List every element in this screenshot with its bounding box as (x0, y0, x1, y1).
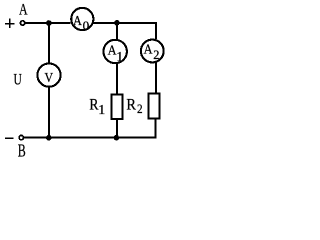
terminal A (20, 21, 24, 25)
svg-text:B: B (18, 141, 26, 160)
svg-text:V: V (44, 71, 53, 86)
wire: junction down to voltmeter V (48, 23, 50, 63)
wire: resistor R1 down to bottom wire (116, 119, 118, 138)
wire: ammeter A0 to top-right corner (93, 22, 157, 24)
wire: resistor R2 down to bottom-right corner (155, 119, 157, 139)
svg-text:1: 1 (98, 103, 105, 118)
resistor R1 (112, 95, 123, 120)
svg-text:2: 2 (137, 101, 143, 116)
svg-text:1: 1 (116, 50, 123, 65)
terminal B (19, 135, 23, 139)
ammeter A1 (104, 40, 127, 63)
label - (negative terminal sign) (5, 137, 14, 139)
svg-text:A: A (19, 1, 28, 18)
label + (positive terminal sign) (5, 19, 15, 29)
svg-text:U: U (13, 71, 22, 88)
svg-text:R: R (126, 96, 136, 113)
wire: bottom rail from terminal B to bottom-right corner (24, 137, 157, 139)
junction: bottom of R1 branch (114, 135, 120, 141)
junction: bottom of voltmeter branch (46, 135, 52, 141)
svg-text:A: A (144, 41, 153, 56)
wire: junction down to ammeter A1 (116, 23, 118, 40)
svg-text:A: A (73, 13, 82, 28)
wire: ammeter A1 down to resistor R1 (116, 64, 118, 95)
wire: top-right corner down to ammeter A2 (155, 22, 157, 39)
wire: ammeter A2 down to resistor R2 (155, 63, 157, 94)
svg-text:0: 0 (83, 18, 90, 33)
wire: terminal A to ammeter A0 (25, 22, 70, 24)
voltmeter V (37, 64, 60, 87)
ammeter A2 (141, 40, 164, 63)
junction: top of A1/R1 branch (114, 20, 120, 26)
wire: voltmeter V down to bottom wire (48, 87, 50, 138)
junction: top of voltmeter branch (46, 20, 52, 26)
resistor R2 (148, 94, 159, 119)
svg-text:2: 2 (153, 47, 159, 62)
ammeter A0 (71, 8, 93, 30)
